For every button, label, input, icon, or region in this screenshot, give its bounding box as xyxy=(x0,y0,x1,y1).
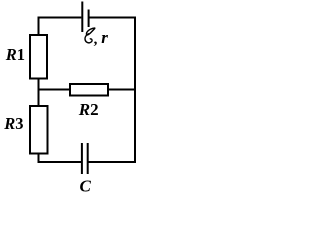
battery EMF source: short plate xyxy=(88,10,90,28)
capacitor C: right plate xyxy=(87,143,89,174)
svg-text:,: , xyxy=(94,31,98,47)
svg-text:R2: R2 xyxy=(78,100,99,119)
resistor R1 xyxy=(30,35,47,79)
wire: middle branch left of R2 xyxy=(38,89,71,91)
wire: right rail xyxy=(134,17,136,164)
wire: top rail left segment xyxy=(38,17,82,19)
wire: top rail right segment xyxy=(89,17,136,19)
wire: middle branch right of R2 xyxy=(108,89,136,91)
wire: stub from top rail down to R1 top xyxy=(38,17,40,36)
wire: bottom rail right segment xyxy=(88,161,136,163)
resistor R3 xyxy=(30,106,48,154)
wire: link between R1 and R3 xyxy=(38,78,40,106)
wire: stub from R3 bottom to bottom rail xyxy=(38,153,40,163)
svg-text:C: C xyxy=(80,177,92,196)
svg-text:R1: R1 xyxy=(5,45,25,64)
wire: bottom rail left segment xyxy=(38,161,82,163)
svg-text:R3: R3 xyxy=(3,114,23,133)
label EMF script E xyxy=(85,28,95,43)
battery EMF source: long plate xyxy=(81,2,83,33)
capacitor C: left plate xyxy=(81,143,83,174)
resistor R2 xyxy=(70,84,108,96)
svg-text:r: r xyxy=(101,28,108,47)
